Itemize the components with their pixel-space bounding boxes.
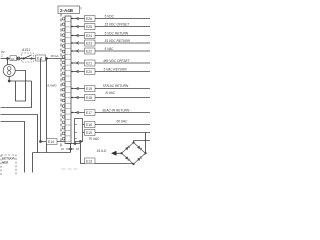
svg-text:NER: NER <box>2 161 9 165</box>
wire 5 VAC RETURN <box>71 67 151 74</box>
svg-text:15 VDC RETURN: 15 VDC RETURN <box>105 39 131 43</box>
off-page arrow <box>111 151 117 156</box>
stray marks <box>62 168 78 170</box>
svg-text:A1S1: A1S1 <box>21 48 30 52</box>
wire switch drop A <box>40 59 42 142</box>
node J2 pin <box>80 141 82 143</box>
wire bottom bus <box>33 152 71 154</box>
terminal strip wire loops <box>62 18 65 141</box>
wire 15 VDC RETURN <box>71 39 151 46</box>
wire label E110 <box>36 55 46 61</box>
svg-text:19 A-D: 19 A-D <box>97 149 107 153</box>
wire strip bottom riser <box>70 144 72 153</box>
wire label E13 <box>85 158 96 164</box>
wire motor loop <box>15 71 25 102</box>
svg-text:5 VAC RETURN: 5 VAC RETURN <box>104 67 128 71</box>
svg-text:E16: E16 <box>86 123 92 127</box>
svg-text:TEN AC RETURN: TEN AC RETURN <box>103 84 129 88</box>
wire bridge top <box>133 141 135 143</box>
svg-text:E25: E25 <box>86 25 92 29</box>
wire label UL <box>10 56 17 61</box>
dashed enclosure border <box>60 14 62 149</box>
wire 70 VAC <box>89 137 151 141</box>
tick mark <box>80 7 82 10</box>
wire TEN AC RETURN <box>71 84 151 92</box>
wire left line 2 <box>1 115 38 153</box>
svg-text:E26: E26 <box>86 17 92 21</box>
svg-text:70 VAC: 70 VAC <box>89 137 101 141</box>
assembly label 2-A4B <box>58 6 80 14</box>
power panel dashed box <box>1 155 16 176</box>
switch A1S1 <box>21 48 34 62</box>
svg-text:18 GA: 18 GA <box>51 54 59 58</box>
svg-text:MR VDC OFFSET: MR VDC OFFSET <box>104 59 131 63</box>
svg-text:5 VDC RETURN: 5 VDC RETURN <box>105 31 129 35</box>
svg-text:E24: E24 <box>86 34 92 38</box>
diode CR1-C <box>137 158 141 162</box>
svg-text:E19: E19 <box>86 87 92 91</box>
wire left line 3 <box>1 122 25 173</box>
node <box>40 141 42 143</box>
svg-text:E23: E23 <box>86 42 92 46</box>
svg-text:BLAC-IN RETURN: BLAC-IN RETURN <box>103 108 130 112</box>
wire left line 1 <box>1 81 32 108</box>
svg-text:6 AWG: 6 AWG <box>48 84 58 88</box>
svg-text:60 VAC: 60 VAC <box>117 119 129 123</box>
wire bridge right riser <box>145 133 147 154</box>
svg-text:E14: E14 <box>48 140 54 144</box>
svg-text:E20: E20 <box>86 70 92 74</box>
svg-text:E11: E11 <box>37 57 43 61</box>
svg-text:5 VAC: 5 VAC <box>105 47 115 51</box>
wire 5 VDC <box>71 14 151 21</box>
wire bridge left lead <box>117 152 122 154</box>
svg-text:E21: E21 <box>86 62 92 66</box>
node on dashed edge <box>70 148 72 150</box>
bridge rectifier CR1 <box>121 142 146 165</box>
wire strip bottom to bridge <box>67 144 134 164</box>
svg-text:2: 2 <box>0 54 3 58</box>
node <box>74 143 76 145</box>
svg-text:E22: E22 <box>86 50 92 54</box>
node switch output <box>46 58 48 60</box>
svg-text:UL: UL <box>11 57 15 61</box>
dashed enclosure bottom edge <box>61 148 80 150</box>
motor B1 <box>3 59 15 82</box>
wire 60 VAC <box>83 119 151 127</box>
svg-text:E13: E13 <box>86 160 92 164</box>
wire 5 VDC RETURN <box>71 31 151 38</box>
svg-text:15 VDC OFFSET: 15 VDC OFFSET <box>105 22 131 26</box>
wire N VAC <box>71 91 151 101</box>
wire MR VDC OFFSET <box>71 59 151 66</box>
svg-text:N VAC: N VAC <box>106 91 116 95</box>
svg-text:E18: E18 <box>86 96 92 100</box>
svg-text:5 VDC: 5 VDC <box>105 14 115 18</box>
terminal strip TB1 outline <box>65 16 71 144</box>
wire 5 VAC <box>71 47 151 54</box>
svg-text:E17: E17 <box>86 111 92 115</box>
svg-text:2-A4B: 2-A4B <box>60 8 74 13</box>
diode CR1-D <box>125 156 129 160</box>
connector J2 <box>75 119 83 142</box>
diode CR1-A <box>125 147 129 151</box>
wire E15 <box>83 130 151 136</box>
wire switch drop B <box>46 59 48 153</box>
wire 15 VDC OFFSET <box>71 22 151 29</box>
diode CR1-B <box>137 146 141 150</box>
wire BLAC-IN RETURN <box>71 108 151 115</box>
wire switch feed <box>1 57 66 60</box>
wire to strip E14 <box>41 139 66 145</box>
wire branch down <box>32 153 34 173</box>
terminal strip cell rungs <box>65 22 71 142</box>
svg-text:E15: E15 <box>86 131 92 135</box>
wire motor bottom run <box>9 80 31 82</box>
